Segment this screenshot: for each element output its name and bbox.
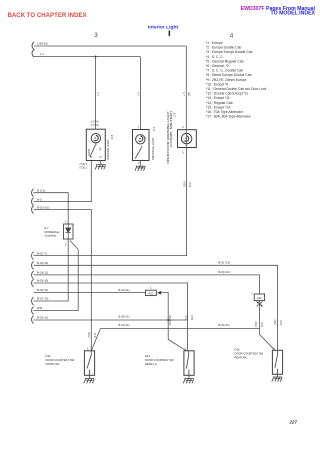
svg-text:1: 1 <box>150 287 152 290</box>
svg-text:INTERIOR LIGHT: INTERIOR LIGHT <box>106 139 110 160</box>
svg-text:*10 : Except *9: *10 : Except *9 <box>206 82 228 86</box>
svg-text:D10: D10 <box>46 354 51 358</box>
svg-text:B-O(I-11): B-O(I-11) <box>119 314 130 318</box>
svg-text:1: 1 <box>138 126 140 129</box>
svg-text:C 9: C 9 <box>173 112 177 117</box>
svg-text:2: 2 <box>138 162 140 165</box>
svg-text:DOOR COURTESY SW: DOOR COURTESY SW <box>145 358 174 362</box>
svg-text:1: 1 <box>185 348 187 351</box>
svg-text:*7 : S. C. C., Double Cab: *7 : S. C. C., Double Cab <box>206 69 243 73</box>
svg-text:B-O(*11): B-O(*11) <box>169 315 172 325</box>
svg-text:*8 : Diesel Europe Double Cab: *8 : Diesel Europe Double Cab <box>206 73 252 77</box>
svg-text:DIODE(Door: DIODE(Door <box>45 230 60 234</box>
svg-text:*9 : 2RZ-FE, Diesel Europe: *9 : 2RZ-FE, Diesel Europe <box>206 78 247 82</box>
svg-text:4: 4 <box>182 126 184 129</box>
svg-text:B-O(I-11): B-O(I-11) <box>37 288 48 292</box>
svg-text:Interior Light: Interior Light <box>148 24 179 30</box>
svg-text:1: 1 <box>87 348 89 351</box>
svg-text:*11 : General Double Cab w/o D: *11 : General Double Cab w/o Door Lock <box>206 87 267 91</box>
svg-text:E 7: E 7 <box>45 226 50 230</box>
svg-text:A22: A22 <box>257 296 262 300</box>
svg-text:227: 227 <box>288 420 297 425</box>
svg-text:L-W(*16): L-W(*16) <box>37 42 48 46</box>
svg-text:L-Y: L-Y <box>40 52 44 56</box>
svg-text:FRONT RH: FRONT RH <box>46 362 60 366</box>
svg-text:B-O(I-11): B-O(I-11) <box>119 288 130 292</box>
svg-text:1: 1 <box>251 293 253 296</box>
svg-text:B-O: B-O <box>191 316 194 321</box>
svg-text:(COMB. METER): (COMB. METER) <box>169 111 173 148</box>
svg-text:W-B: W-B <box>37 306 42 310</box>
svg-text:(*4): (*4) <box>188 92 191 96</box>
svg-text:3 (*15): 3 (*15) <box>91 124 99 127</box>
svg-text:*6 : General, *2: *6 : General, *2 <box>206 64 229 68</box>
svg-text:Courtesy): Courtesy) <box>45 234 57 238</box>
svg-text:B-O (I-10): B-O (I-10) <box>37 205 49 209</box>
svg-text:PERSONAL LIGHT: PERSONAL LIGHT <box>151 137 155 160</box>
svg-text:*4 : S. C. C.: *4 : S. C. C. <box>206 55 224 59</box>
svg-text:*3 : Europe Except Double Cab: *3 : Europe Except Double Cab <box>206 50 253 54</box>
svg-text:*15 : Except *14: *15 : Except *14 <box>206 105 230 109</box>
svg-text:B-O(I-11): B-O(I-11) <box>37 315 48 319</box>
svg-text:(*15) 1: (*15) 1 <box>80 167 88 170</box>
svg-text:B-O: B-O <box>280 321 283 326</box>
svg-text:B-O(I-11): B-O(I-11) <box>219 323 230 327</box>
svg-text:A22: A22 <box>148 292 153 296</box>
svg-text:L-Y: L-Y <box>183 92 186 96</box>
svg-text:1: 1 <box>273 347 275 350</box>
svg-text:B-O(I-11): B-O(I-11) <box>37 271 48 275</box>
svg-text:TO MODEL INDEX: TO MODEL INDEX <box>271 10 316 16</box>
svg-text:(*13): (*13) <box>255 321 258 327</box>
svg-text:DOOR COURTESY SW: DOOR COURTESY SW <box>235 351 264 355</box>
svg-text:DOOR: DOOR <box>88 149 91 156</box>
svg-text:B-O( *13): B-O( *13) <box>37 297 48 301</box>
svg-text:L-Y: L-Y <box>97 92 100 96</box>
svg-text:R 8: R 8 <box>110 134 114 139</box>
svg-text:B-O( *13): B-O( *13) <box>219 261 230 265</box>
svg-text:(*10): (*10) <box>183 181 186 187</box>
svg-text:B-O(I-10): B-O(I-10) <box>37 261 48 265</box>
svg-text:3: 3 <box>94 33 98 39</box>
svg-text:*13 : Except *11: *13 : Except *11 <box>206 96 230 100</box>
svg-text:BACK TO CHAPTER INDEX: BACK TO CHAPTER INDEX <box>8 12 88 19</box>
svg-text:B-O: B-O <box>189 183 192 188</box>
svg-text:B-(J-1): B-(J-1) <box>37 188 45 192</box>
svg-text:(*12): (*12) <box>274 319 277 325</box>
svg-text:B-O(I-10): B-O(I-10) <box>37 279 48 283</box>
svg-text:5: 5 <box>182 152 184 155</box>
svg-text:(*12): (*12) <box>185 314 188 320</box>
svg-text:*1 : Europe: *1 : Europe <box>206 41 223 45</box>
svg-text:*16 : 70A Type Alternator: *16 : 70A Type Alternator <box>206 110 244 114</box>
svg-text:P 4: P 4 <box>152 127 156 131</box>
svg-text:2: 2 <box>65 243 67 246</box>
svg-text:*14 : Regular Cab: *14 : Regular Cab <box>206 101 233 105</box>
svg-text:D15: D15 <box>235 347 240 351</box>
svg-text:B-O: B-O <box>37 197 42 201</box>
svg-text:REAR RH: REAR RH <box>235 355 247 359</box>
svg-text:B-O: B-O <box>94 333 97 338</box>
svg-text:B-O(I-10): B-O(I-10) <box>219 270 230 274</box>
svg-text:(*12): (*12) <box>88 332 91 338</box>
svg-text:*12 : Double Cab Except *11: *12 : Double Cab Except *11 <box>206 92 248 96</box>
svg-text:B-O: B-O <box>261 323 264 328</box>
svg-text:D14: D14 <box>145 354 150 358</box>
svg-text:L-Y: L-Y <box>137 92 140 96</box>
svg-text:B-O(I-11): B-O(I-11) <box>119 323 130 327</box>
svg-text:*5 : General Regular Cab: *5 : General Regular Cab <box>206 59 244 63</box>
svg-text:*17 : 60A, 80A Type Alternator: *17 : 60A, 80A Type Alternator <box>206 115 252 119</box>
svg-text:DOOR COURTESY SW: DOOR COURTESY SW <box>46 358 75 362</box>
svg-text:1: 1 <box>65 220 67 223</box>
svg-text:B-O( *7): B-O( *7) <box>37 251 47 255</box>
svg-text:OFF: OFF <box>100 146 102 151</box>
svg-text:*2 : Europe Double Cab: *2 : Europe Double Cab <box>206 46 241 50</box>
svg-text:REAR LH: REAR LH <box>145 362 157 366</box>
svg-text:4: 4 <box>230 34 234 40</box>
